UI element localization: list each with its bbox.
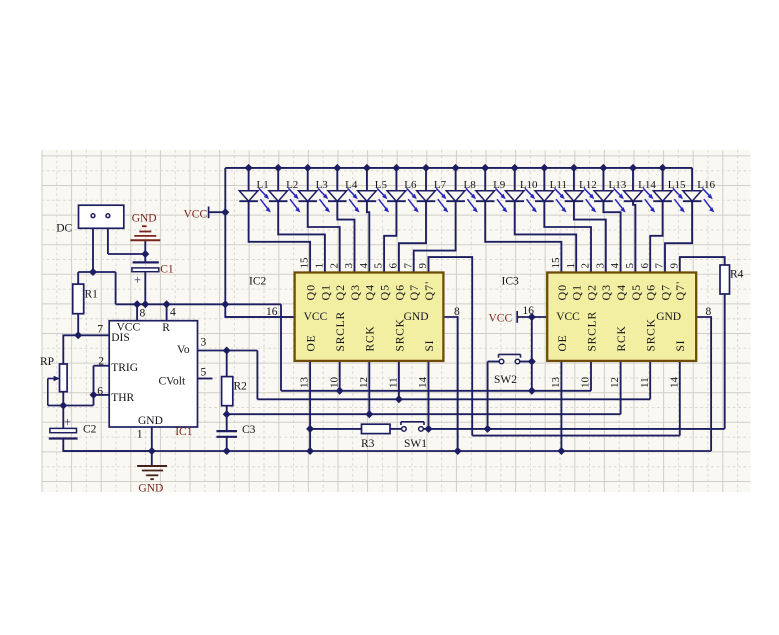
svg-text:8: 8 [706,306,712,318]
svg-text:10: 10 [328,377,340,389]
svg-text:SI: SI [675,340,687,352]
svg-text:IC1: IC1 [175,426,193,438]
svg-text:1: 1 [137,429,143,441]
svg-text:Q4: Q4 [363,284,377,301]
svg-text:3: 3 [594,263,606,269]
svg-text:L5: L5 [375,179,388,191]
svg-text:GND: GND [138,415,163,427]
svg-text:Q3: Q3 [599,284,613,301]
svg-text:7: 7 [97,324,103,336]
svg-text:12: 12 [358,377,370,388]
svg-text:L10: L10 [520,179,538,191]
svg-text:L13: L13 [609,179,627,191]
svg-text:4: 4 [170,307,176,319]
svg-text:R4: R4 [730,269,744,281]
svg-text:Q3: Q3 [348,284,362,301]
svg-text:6: 6 [388,263,400,269]
svg-text:OE: OE [557,335,569,352]
svg-text:L14: L14 [638,179,656,191]
svg-text:RCK: RCK [365,325,377,351]
svg-text:SRCLR: SRCLR [335,311,347,351]
svg-text:3: 3 [343,263,355,269]
svg-text:SRCLR: SRCLR [586,311,598,351]
svg-text:Q0: Q0 [304,284,318,301]
svg-text:R1: R1 [85,289,99,301]
svg-text:SRCK: SRCK [394,318,406,351]
svg-text:DC: DC [56,223,72,235]
svg-text:L7: L7 [434,179,447,191]
svg-text:C3: C3 [242,424,256,436]
svg-text:6: 6 [97,386,103,398]
svg-text:+: + [64,415,71,429]
svg-text:R: R [162,322,170,334]
svg-text:15: 15 [550,257,562,269]
svg-text:CVolt: CVolt [159,376,186,388]
svg-text:13: 13 [550,377,562,389]
svg-text:L1: L1 [256,179,268,191]
svg-text:VCC: VCC [556,311,580,323]
svg-text:IC2: IC2 [249,276,267,288]
svg-text:L16: L16 [697,179,715,191]
svg-text:1: 1 [314,263,326,269]
svg-text:RP: RP [40,356,54,368]
svg-text:C1: C1 [160,264,174,276]
svg-text:4: 4 [358,263,370,269]
svg-text:14: 14 [417,377,429,389]
svg-text:Q4: Q4 [614,284,628,301]
svg-text:Q7': Q7' [422,281,436,301]
svg-text:11: 11 [639,377,651,388]
svg-text:SW2: SW2 [494,374,517,386]
svg-text:8: 8 [454,306,460,318]
svg-text:L3: L3 [316,179,329,191]
svg-text:9: 9 [668,263,680,269]
svg-text:L2: L2 [286,179,298,191]
svg-text:16: 16 [266,306,278,318]
svg-text:1: 1 [565,263,577,269]
svg-text:Q5: Q5 [378,284,392,301]
svg-text:VCC: VCC [489,313,513,325]
svg-text:+: + [134,273,141,287]
svg-text:Q6: Q6 [644,284,658,301]
svg-text:Q7: Q7 [407,284,421,301]
svg-text:7: 7 [654,263,666,269]
svg-text:GND: GND [404,311,429,323]
svg-text:2: 2 [98,356,104,368]
svg-text:10: 10 [580,377,592,389]
svg-text:L9: L9 [493,179,506,191]
svg-text:SI: SI [424,340,436,352]
svg-text:R2: R2 [234,381,248,393]
svg-text:Vo: Vo [177,344,190,356]
svg-text:5: 5 [201,367,207,379]
svg-text:14: 14 [668,377,680,389]
svg-text:OE: OE [306,335,318,352]
svg-text:L11: L11 [550,179,567,191]
svg-text:L8: L8 [463,179,476,191]
svg-text:L4: L4 [345,179,358,191]
svg-text:RCK: RCK [616,325,628,351]
svg-text:SRCK: SRCK [646,318,658,351]
svg-text:4: 4 [609,263,621,269]
svg-text:9: 9 [417,263,429,269]
svg-text:11: 11 [388,377,400,388]
svg-text:Q2: Q2 [333,284,347,301]
svg-text:2: 2 [328,263,340,269]
svg-text:IC3: IC3 [502,276,520,288]
svg-text:Q0: Q0 [555,284,569,301]
svg-text:TRIG: TRIG [111,362,138,374]
svg-text:C2: C2 [83,424,97,436]
svg-text:5: 5 [624,263,636,269]
svg-text:3: 3 [201,337,207,349]
svg-text:GND: GND [132,213,157,225]
svg-text:L12: L12 [579,179,597,191]
svg-text:Q5: Q5 [629,284,643,301]
svg-text:VCC: VCC [304,311,328,323]
svg-text:5: 5 [373,263,385,269]
svg-text:2: 2 [580,263,592,269]
svg-text:VCC: VCC [184,209,208,221]
svg-text:12: 12 [609,377,621,388]
svg-text:GND: GND [138,483,163,495]
svg-text:R3: R3 [361,438,375,450]
svg-text:Q6: Q6 [392,284,406,301]
svg-text:GND: GND [656,311,681,323]
svg-text:13: 13 [299,377,311,389]
svg-text:Q1: Q1 [570,284,584,301]
svg-text:Q1: Q1 [318,284,332,301]
svg-text:Q7: Q7 [658,284,672,301]
svg-text:L15: L15 [668,179,686,191]
svg-text:7: 7 [402,263,414,269]
svg-text:6: 6 [639,263,651,269]
svg-text:L6: L6 [404,179,417,191]
svg-text:15: 15 [299,257,311,269]
svg-text:SW1: SW1 [404,438,427,450]
svg-text:8: 8 [140,307,146,319]
svg-text:Q2: Q2 [584,284,598,301]
svg-text:THR: THR [111,392,134,404]
svg-text:DIS: DIS [111,332,130,344]
svg-text:16: 16 [523,305,535,317]
svg-text:Q7': Q7' [673,281,687,301]
